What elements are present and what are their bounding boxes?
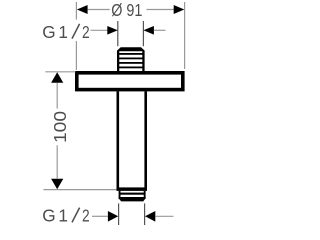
svg-text:100: 100	[50, 111, 70, 143]
arrowhead down (100 dim)	[51, 179, 63, 189]
pipe right wall	[144, 91, 147, 188]
label G 1/2 top	[42, 22, 89, 42]
arrowhead pointing left at bottom right tick	[145, 211, 155, 222]
tick at top thread left edge	[117, 21, 119, 46]
flange	[77, 73, 183, 90]
svg-text:1: 1	[58, 22, 68, 42]
bottom thread left wall	[119, 191, 121, 199]
arrowhead left of dimension Ø91	[77, 5, 88, 14]
tail line right of bottom right arrowhead	[155, 215, 173, 217]
leader line from G 1/2 bottom to bottom left tick	[92, 215, 108, 217]
pipe bottom bar	[117, 187, 148, 191]
svg-text:G: G	[42, 22, 55, 42]
label G 1/2 bottom	[42, 206, 89, 226]
top thread left wall	[117, 51, 119, 72]
tail line right of top right arrowhead	[154, 29, 166, 31]
bottom thread hatch line	[119, 193, 144, 195]
svg-text:Ø 91: Ø 91	[111, 1, 142, 21]
extension line left of dimension Ø91 (flange left edge)	[75, 2, 77, 70]
svg-text:1: 1	[58, 206, 68, 226]
arrowhead pointing left at top right tick	[143, 26, 154, 35]
extension line at flange top level (100 dim)	[45, 71, 75, 73]
top thread cap bar (chamfered)	[117, 47, 145, 51]
tick at top thread right edge	[142, 21, 144, 46]
bottom thread end bar (chamfered)	[119, 197, 146, 201]
arrowhead right of dimension Ø91	[174, 5, 185, 14]
pipe left wall	[117, 91, 120, 188]
svg-text:2: 2	[82, 23, 90, 42]
svg-text:G: G	[42, 206, 55, 226]
bottom thread right wall	[144, 191, 146, 199]
tick at bottom thread left edge	[118, 203, 120, 225]
top thread hatch lines	[118, 53, 144, 68]
leader line from G 1/2 top to left tick	[91, 29, 108, 31]
svg-text:2: 2	[82, 207, 90, 226]
extension line right of dimension Ø91 (flange right edge)	[184, 2, 186, 69]
dimension line 100	[56, 83, 58, 179]
extension line at pipe bottom level (100 dim)	[44, 189, 117, 191]
dimension line Ø91	[88, 9, 174, 11]
arrowhead up (100 dim)	[51, 72, 63, 83]
tick at bottom thread right edge	[144, 203, 146, 225]
top thread right wall	[142, 51, 144, 72]
arrowhead pointing right at top left tick	[107, 26, 118, 35]
arrowhead pointing right at bottom left tick	[108, 211, 118, 222]
